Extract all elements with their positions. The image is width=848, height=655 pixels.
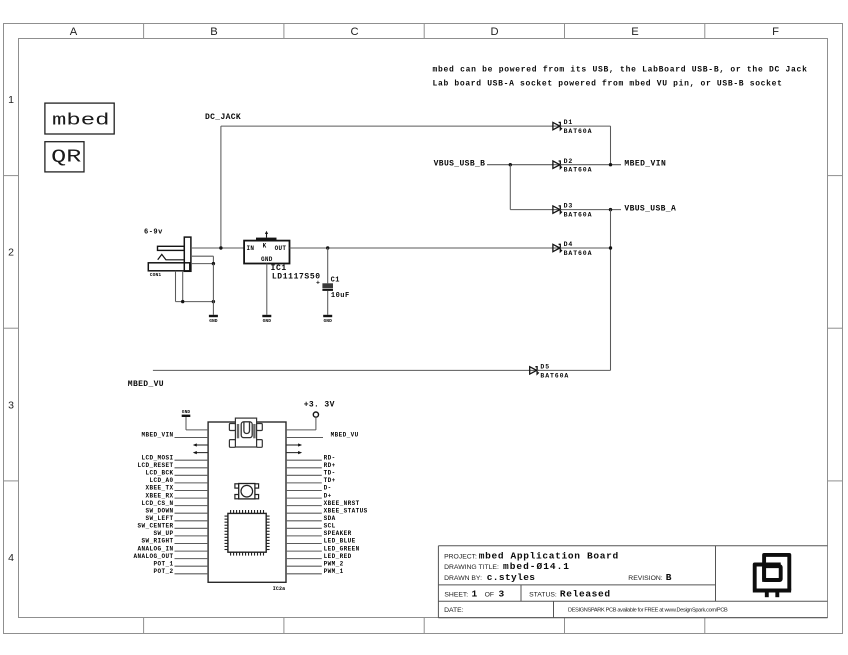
svg-text:LCD_MOSI: LCD_MOSI — [141, 454, 173, 461]
svg-text:REVISION:: REVISION: — [628, 575, 662, 582]
svg-text:3: 3 — [499, 588, 505, 599]
svg-text:D2: D2 — [564, 158, 574, 165]
svg-text:D-: D- — [324, 485, 332, 492]
wire D3 cathode to VBUS_USB_A — [560, 209, 621, 211]
QFP chip graphic — [225, 510, 270, 556]
svg-text:XBEE_TX: XBEE_TX — [145, 485, 173, 492]
pin LED_GREEN — [286, 550, 322, 552]
wire branch down to D3 — [509, 165, 511, 210]
svg-text:ANALOG_IN: ANALOG_IN — [137, 545, 173, 552]
svg-text:SDA: SDA — [324, 515, 336, 522]
pin PWM_2 — [286, 565, 322, 567]
svg-text:XBEE_RX: XBEE_RX — [145, 492, 173, 499]
svg-text:DRAWING TITLE:: DRAWING TITLE: — [444, 564, 499, 571]
svg-text:+3. 3V: +3. 3V — [304, 401, 335, 410]
svg-text:XBEE_NRST: XBEE_NRST — [324, 500, 360, 507]
svg-text:VBUS_USB_A: VBUS_USB_A — [624, 204, 676, 213]
pin D+ — [286, 497, 322, 499]
svg-text:F: F — [772, 26, 779, 38]
svg-text:BAT60A: BAT60A — [564, 167, 593, 174]
svg-text:C1: C1 — [331, 277, 340, 285]
svg-text:MBED_VU: MBED_VU — [128, 380, 164, 389]
svg-text:LED_RED: LED_RED — [324, 553, 352, 560]
svg-text:SPEAKER: SPEAKER — [324, 530, 352, 537]
svg-text:mbed Application Board: mbed Application Board — [479, 550, 619, 561]
pin TD+ — [286, 482, 322, 484]
pin LED_BLUE — [286, 543, 322, 545]
svg-text:CON1: CON1 — [150, 272, 162, 278]
svg-text:VBUS_USB_B: VBUS_USB_B — [434, 160, 486, 169]
wire IC1 GND pin — [266, 264, 268, 315]
svg-text:SW_CENTER: SW_CENTER — [137, 523, 173, 530]
pin arrow left 3 — [195, 452, 209, 454]
wire D5 cathode to bus — [537, 369, 610, 371]
svg-text:4: 4 — [8, 552, 14, 564]
pin XBEE_STATUS — [286, 512, 322, 514]
connector CON1 (DC jack) — [148, 237, 191, 278]
pin RD+ — [286, 467, 322, 469]
svg-text:XBEE_STATUS: XBEE_STATUS — [324, 507, 368, 514]
svg-text:IN: IN — [247, 245, 255, 252]
svg-text:LD1117S50: LD1117S50 — [272, 273, 321, 282]
svg-text:MBED_VIN: MBED_VIN — [624, 160, 666, 169]
svg-text:Released: Released — [560, 588, 610, 599]
wire bus D1-D2 — [610, 126, 612, 165]
svg-text:LCD_CS_N: LCD_CS_N — [141, 500, 173, 507]
svg-text:2: 2 — [8, 247, 14, 259]
mbed logo — [45, 103, 114, 134]
svg-text:DESIGNSPARK PCB available for: DESIGNSPARK PCB available for FREE at ww… — [568, 608, 728, 614]
pin arrow right 3 — [286, 452, 300, 454]
svg-text:A: A — [70, 26, 78, 38]
diode D4 BAT60A — [552, 241, 593, 257]
wire bus D3-D5 — [610, 210, 612, 371]
svg-text:IC2a: IC2a — [273, 586, 285, 592]
push-button graphic — [235, 484, 259, 499]
svg-text:10uF: 10uF — [331, 292, 350, 300]
svg-text:LCD_RESET: LCD_RESET — [137, 462, 173, 469]
svg-text:BAT60A: BAT60A — [564, 250, 593, 257]
junction gnd1 — [181, 300, 184, 303]
svg-text:RD+: RD+ — [324, 462, 336, 469]
pin PWM_1 — [286, 573, 322, 575]
svg-text:DRAWN BY:: DRAWN BY: — [444, 575, 482, 582]
wire +3.3V to module pin — [315, 417, 317, 430]
svg-text:SW_DOWN: SW_DOWN — [145, 507, 173, 514]
wire DC_JACK horizontal to D1 — [221, 125, 553, 127]
wire D1 cathode to bus — [560, 125, 610, 127]
diode D1 BAT60A — [552, 119, 593, 135]
junction at DC_JACK / IN — [219, 246, 222, 249]
svg-text:OF: OF — [485, 591, 494, 598]
svg-text:D3: D3 — [564, 203, 574, 210]
pin LED_RED — [286, 558, 322, 560]
regulator IC1 LD1117S50 — [244, 231, 321, 282]
svg-text:SW_RIGHT: SW_RIGHT — [141, 538, 173, 545]
pin arrow left 2 — [195, 444, 209, 446]
diode D2 BAT60A — [552, 158, 593, 174]
wire DC_JACK vertical — [220, 126, 222, 248]
wire jack mount pins to gnd — [175, 271, 177, 302]
junction sleeve — [212, 262, 215, 265]
svg-text:LED_GREEN: LED_GREEN — [324, 545, 360, 552]
svg-text:POT_2: POT_2 — [153, 568, 173, 575]
svg-text:mbed: mbed — [52, 111, 110, 130]
svg-text:STATUS:: STATUS: — [529, 591, 557, 598]
junction VBUS_USB_B branch — [509, 163, 512, 166]
pin SCL — [286, 527, 322, 529]
wire D2 cathode to MBED_VIN — [560, 164, 621, 166]
svg-text:GND: GND — [182, 409, 191, 415]
svg-text:GND: GND — [209, 318, 218, 324]
pin D- — [286, 490, 322, 492]
svg-text:D+: D+ — [324, 492, 332, 499]
svg-text:LED_BLUE: LED_BLUE — [324, 538, 356, 545]
svg-text:MBED_VIN: MBED_VIN — [141, 432, 173, 439]
junction gnd2 — [212, 300, 215, 303]
wire VBUS_USB_B to D2 anode — [487, 164, 553, 166]
svg-text:ANALOG_OUT: ANALOG_OUT — [133, 553, 173, 560]
svg-text:SCL: SCL — [324, 523, 336, 530]
svg-text:SW_LEFT: SW_LEFT — [145, 515, 173, 522]
DesignSpark logo — [753, 555, 791, 597]
svg-text:C: C — [350, 26, 358, 38]
svg-text:1: 1 — [8, 94, 14, 106]
ground (IC1) — [262, 315, 271, 324]
svg-text:D: D — [490, 26, 498, 38]
svg-text:PWM_1: PWM_1 — [324, 568, 344, 575]
svg-text:SW_UP: SW_UP — [153, 530, 173, 537]
svg-text:OUT: OUT — [275, 245, 287, 252]
power +3.3V terminal — [304, 401, 335, 418]
svg-text:GND: GND — [323, 318, 332, 324]
junction bus at D2 — [609, 163, 612, 166]
ground (module pin 1 left) — [182, 409, 191, 417]
svg-text:K: K — [263, 243, 267, 250]
pin SDA — [286, 520, 322, 522]
title block — [438, 546, 827, 618]
junction OUT / C1 — [326, 246, 329, 249]
wire MBED_VU to D5 anode — [153, 369, 530, 371]
wire D4 cathode to bus — [560, 247, 610, 249]
svg-text:E: E — [631, 26, 638, 38]
mini-USB connector graphic — [229, 418, 262, 447]
wire jack sleeve contact — [191, 263, 214, 265]
svg-text:TD-: TD- — [324, 470, 336, 477]
pin TD- — [286, 474, 322, 476]
diode D5 BAT60A — [529, 364, 570, 380]
wire IC1 OUT to D4 — [290, 247, 553, 249]
svg-text:+: + — [316, 280, 320, 287]
ground (C1) — [323, 315, 332, 324]
svg-text:PWM_2: PWM_2 — [324, 560, 344, 567]
wire jack switch contact — [191, 255, 214, 257]
wire branch to D3 anode — [510, 209, 553, 211]
pin XBEE_NRST — [286, 505, 322, 507]
diode D3 BAT60A — [552, 203, 593, 219]
pin SPEAKER — [286, 535, 322, 537]
wire GND to module pin — [185, 417, 187, 430]
svg-text:Lab board USB-A socket powered: Lab board USB-A socket powered from mbed… — [433, 80, 783, 89]
pin RD- — [286, 459, 322, 461]
svg-text:RD-: RD- — [324, 454, 336, 461]
pin arrow right 2 — [286, 444, 300, 446]
wire jack pin to IC1 IN — [191, 247, 244, 249]
svg-text:POT_1: POT_1 — [153, 560, 173, 567]
note text — [433, 65, 808, 88]
svg-text:BAT60A: BAT60A — [540, 372, 569, 379]
svg-text:MBED_VU: MBED_VU — [331, 432, 359, 439]
svg-text:mbed can be powered from its U: mbed can be powered from its USB, the La… — [433, 65, 808, 74]
svg-text:LCD_BCK: LCD_BCK — [145, 470, 173, 477]
svg-text:1: 1 — [472, 588, 478, 599]
junction bus at D3 — [609, 208, 612, 211]
svg-text:TD+: TD+ — [324, 477, 336, 484]
svg-text:SHEET:: SHEET: — [444, 591, 468, 598]
junction bus at D4 — [609, 246, 612, 249]
svg-text:QR: QR — [51, 146, 81, 167]
svg-text:B: B — [666, 572, 672, 583]
svg-text:DC_JACK: DC_JACK — [205, 113, 241, 122]
svg-text:LCD_A0: LCD_A0 — [149, 477, 173, 484]
svg-text:GND: GND — [261, 256, 273, 263]
svg-text:mbed-Ø14.1: mbed-Ø14.1 — [503, 561, 569, 572]
wire to ground symbol — [212, 264, 214, 315]
svg-text:PROJECT:: PROJECT: — [444, 553, 477, 560]
svg-text:BAT60A: BAT60A — [564, 212, 593, 219]
svg-text:GND: GND — [263, 318, 272, 324]
svg-text:D4: D4 — [564, 241, 574, 248]
capacitor C1 10uF — [316, 248, 350, 315]
QR logo — [45, 142, 84, 172]
svg-text:3: 3 — [8, 399, 14, 411]
svg-text:BAT60A: BAT60A — [564, 128, 593, 135]
svg-text:D1: D1 — [564, 119, 574, 126]
module IC2a (mbed) body — [208, 422, 286, 582]
svg-text:DATE:: DATE: — [444, 607, 464, 614]
svg-text:B: B — [210, 26, 217, 38]
svg-text:D5: D5 — [540, 364, 550, 371]
svg-text:c.styles: c.styles — [487, 572, 536, 583]
ground (jack) — [209, 315, 218, 324]
svg-text:6-9v: 6-9v — [144, 228, 163, 236]
